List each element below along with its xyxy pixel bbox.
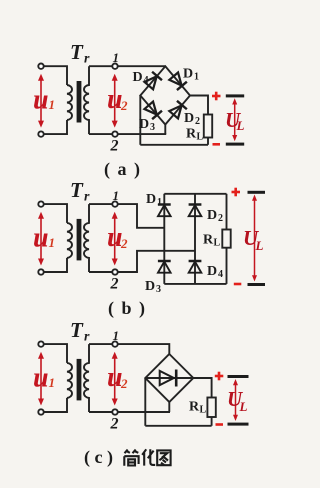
caption hanzi tu (图) <box>157 450 170 465</box>
svg-text:1: 1 <box>157 197 162 208</box>
wire terminal1 step to left branch mid <box>118 204 165 228</box>
label RL (c) <box>189 400 207 416</box>
svg-text:D: D <box>139 117 149 132</box>
svg-text:R: R <box>186 127 197 142</box>
UL measure arrow (b) <box>254 197 256 279</box>
wire bottom vertex stub (c) <box>168 402 170 412</box>
wire terminal1 to bridge top vertex <box>118 65 166 67</box>
diode D1 (b) <box>158 205 171 217</box>
UL measure arrow (c) <box>235 381 237 419</box>
svg-text:4: 4 <box>218 269 223 280</box>
transformer Tr (a) <box>33 40 128 155</box>
svg-text:L: L <box>236 118 245 133</box>
internal diode bar (c) <box>175 370 178 387</box>
diode D2 (b) <box>189 205 202 217</box>
output bar bottom (b) <box>248 283 266 286</box>
wire left vertex drop (c) <box>144 378 146 426</box>
resistor RL (b) <box>222 230 230 248</box>
wire terminal1 to bridge top stub <box>118 344 170 354</box>
svg-text:(a): (a) <box>104 159 148 180</box>
wire left vertex drop to minus rail <box>139 96 141 145</box>
wire bottom vertex stub <box>164 125 166 135</box>
svg-text:L: L <box>214 238 221 249</box>
minus sign (b) <box>234 283 242 286</box>
internal diode triangle (c) <box>160 371 174 385</box>
label D2 <box>184 111 200 127</box>
svg-text:(b): (b) <box>108 298 153 319</box>
right branch vertical <box>194 194 196 284</box>
label RL (a) <box>186 127 204 143</box>
plus sign (a) <box>212 92 221 101</box>
svg-text:D: D <box>207 264 217 279</box>
svg-text:D: D <box>133 70 143 85</box>
caption hanzi jian (简) <box>124 450 138 466</box>
label D3 (b) <box>145 279 161 295</box>
bridge diamond (a) <box>140 66 190 124</box>
svg-text:L: L <box>255 238 264 253</box>
label D4 <box>133 70 149 86</box>
label D1 (b) <box>146 192 162 208</box>
resistor RL (a) <box>204 115 212 138</box>
svg-text:L: L <box>197 132 204 143</box>
label RL (b) <box>203 233 221 249</box>
svg-text:R: R <box>189 400 200 415</box>
svg-text:3: 3 <box>150 122 155 133</box>
svg-text:R: R <box>203 233 214 248</box>
output bar top (b) <box>248 191 266 194</box>
wire RL branch bottom <box>226 248 228 284</box>
diode D4 (b) <box>189 261 202 273</box>
wire right vertex to RL top <box>190 96 208 115</box>
wire RL bottom <box>207 138 209 145</box>
plus sign (b) <box>232 188 241 197</box>
label UL (a) <box>225 108 245 133</box>
internal diode line (c) <box>145 377 193 379</box>
output bar bottom (c) <box>228 423 249 426</box>
left branch vertical <box>163 194 165 284</box>
svg-text:D: D <box>145 279 155 294</box>
resistor RL (c) <box>207 398 215 418</box>
label D1 <box>183 67 199 83</box>
wire RL branch top <box>226 194 228 230</box>
wire RL bottom (c) <box>211 417 213 426</box>
svg-text:L: L <box>200 405 207 416</box>
wire minus rail <box>140 144 208 146</box>
svg-text:3: 3 <box>156 284 161 295</box>
svg-text:4: 4 <box>144 75 149 86</box>
minus sign (c) <box>216 423 224 426</box>
minus rail (b) <box>164 283 226 285</box>
plus rail (b) <box>164 193 226 195</box>
diode D3 (b) <box>158 261 171 273</box>
wire minus rail (c) <box>145 425 211 427</box>
svg-text:L: L <box>239 399 248 414</box>
label D4 (b) <box>207 264 223 280</box>
output bar top (c) <box>228 375 249 378</box>
wire right vertex to RL top (c) <box>193 378 211 398</box>
wire terminal2 step to right branch mid <box>118 251 195 272</box>
transformer Tr (b) <box>33 178 128 293</box>
label D3 <box>139 117 155 133</box>
label D2 (b) <box>207 208 223 224</box>
label UL (b) <box>243 226 264 253</box>
diode D1 <box>169 72 187 90</box>
output bar bottom (a) <box>226 143 244 146</box>
UL measure arrow (a) <box>234 101 236 138</box>
svg-text:1: 1 <box>194 72 199 83</box>
svg-text:2: 2 <box>195 116 200 127</box>
svg-text:2: 2 <box>218 213 223 224</box>
label UL (c) <box>227 387 248 414</box>
diode D4 <box>144 72 162 90</box>
svg-text:D: D <box>183 67 193 82</box>
wire terminal2 to bridge bottom stub <box>118 133 167 135</box>
svg-text:D: D <box>184 111 194 126</box>
minus sign (a) <box>213 143 221 146</box>
caption hanzi hua (化) <box>142 449 155 465</box>
diode D3 <box>144 101 162 119</box>
bridge diamond (c) <box>145 354 193 402</box>
plus sign (c) <box>215 372 224 381</box>
output bar top (a) <box>226 94 244 97</box>
svg-text:D: D <box>146 192 156 207</box>
transformer Tr (c) <box>33 318 128 433</box>
wire terminal2 to bridge bottom (c) <box>118 411 170 413</box>
diode D2 <box>169 101 187 119</box>
svg-text:(c): (c) <box>84 447 117 468</box>
svg-text:D: D <box>207 208 217 223</box>
